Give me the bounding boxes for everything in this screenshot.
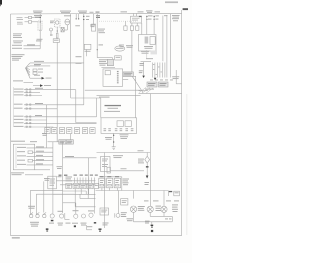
- side box component: [115, 56, 122, 60]
- wire bottom-left corner inner: [36, 194, 74, 214]
- label above right connector: [146, 57, 153, 60]
- pin column marks: [117, 71, 119, 83]
- label left edge right section: [145, 182, 150, 185]
- label headlamp rows left: [14, 89, 24, 127]
- node dot: [57, 31, 58, 32]
- wire bus y191: [63, 191, 87, 194]
- label between lamps: [156, 206, 162, 211]
- label fan rows connector pins bottom: [150, 79, 173, 82]
- label column header left box: [11, 141, 37, 142]
- wire main vertical B: [83, 14, 85, 105]
- label hot in run: [78, 11, 87, 14]
- gray connector tag 1: [147, 82, 157, 87]
- wire right pair 2: [166, 15, 168, 78]
- small box on wire bottom center: [107, 167, 110, 173]
- wire below switch box: [35, 169, 50, 171]
- fuse box row F2: [124, 21, 127, 30]
- wire short horizontal y176.8: [101, 177, 122, 191]
- label fuse F1 rating: [50, 21, 54, 24]
- connector bracket 2: [87, 225, 93, 230]
- label wire colors right connector: [140, 63, 145, 66]
- wire vertical C: [96, 14, 98, 58]
- wire above connector box: [101, 66, 115, 68]
- wire ground lead: [24, 82, 34, 84]
- marker lamp 2: [58, 211, 64, 226]
- label fuse (center): [64, 14, 71, 17]
- dashed component box: [38, 21, 42, 30]
- wire bottom link: [134, 221, 173, 223]
- label splice ids: [75, 16, 95, 27]
- node dots on ground wire: [113, 135, 114, 143]
- diode pack box 0: [66, 183, 72, 188]
- label above headlamp switch: [42, 133, 47, 136]
- wire grid vertical x75.8: [76, 90, 97, 123]
- connector branch box a: [33, 69, 37, 71]
- wire to relay: [93, 14, 95, 24]
- scan artifact dark dash: [183, 8, 188, 10]
- wire grid vertical x96.5: [96, 98, 98, 117]
- label left of link: [127, 218, 134, 221]
- hatch box component: [107, 59, 113, 65]
- wire feed row2: [24, 48, 41, 50]
- wire feed row1: [24, 45, 41, 47]
- wire drop x53.3 to lamps: [52, 194, 54, 214]
- ground G200: [112, 147, 116, 150]
- wire grid corner A: [71, 98, 101, 118]
- wire right of tags: [63, 156, 97, 158]
- switch pod 2: [107, 178, 113, 188]
- headlamp switch box: [13, 144, 34, 170]
- label fan branches: [34, 65, 43, 75]
- ground G201 dark: [99, 229, 102, 232]
- label small right of module: [58, 176, 73, 181]
- gray tag below module: [151, 51, 158, 55]
- label hot at all times (right): [121, 10, 128, 13]
- fuse box row F4: [136, 23, 139, 30]
- label ground lead: [13, 79, 23, 82]
- connector X-box: [61, 27, 64, 32]
- ground dark mark right: [94, 222, 96, 224]
- diode pack box 2: [80, 183, 86, 188]
- wire horizontal H5: [97, 58, 112, 60]
- wire down from dot A: [146, 17, 148, 35]
- label box right border: [174, 191, 180, 196]
- switch pod 1: [99, 178, 105, 188]
- wire right pair 3: [170, 14, 172, 78]
- dark connector tag: [139, 16, 142, 17]
- label fuse block (left): [34, 15, 42, 18]
- diode pack box 1: [73, 183, 79, 188]
- label above wire y170.8: [121, 167, 127, 170]
- pin stub 1: [123, 72, 129, 74]
- scan edge shadow line: [186, 94, 188, 235]
- label battery feed row1: [12, 44, 35, 45]
- wire drop x75.2: [74, 189, 76, 207]
- wire bus y206.8: [75, 206, 95, 208]
- dark marks at corner: [169, 191, 172, 192]
- wire horizontal into cluster hatch lower: [97, 94, 141, 96]
- harness arrow down: [154, 78, 157, 80]
- label right column lamps: [172, 204, 178, 212]
- wire box2 drop: [56, 134, 58, 142]
- switch row 4: [17, 159, 53, 162]
- wire with arrow left of comb: [142, 62, 145, 78]
- wire drop x133.5: [133, 191, 135, 199]
- label dashes left extension: [59, 175, 68, 176]
- switch pod 3: [114, 178, 120, 188]
- ignition switch oval: [65, 19, 70, 25]
- switch S1: [25, 16, 41, 18]
- ground G104 dark: [46, 228, 49, 231]
- harness hatch diagonals: [139, 88, 153, 94]
- wire bus y180.8: [56, 180, 95, 182]
- label wire codes right margin: [172, 15, 180, 21]
- connector label row box 4: [67, 128, 72, 134]
- lamp socket 3: [43, 213, 47, 218]
- label hot at all times (left): [33, 11, 43, 14]
- wire drop x94.6: [94, 189, 96, 214]
- wire box4 drop: [69, 134, 71, 140]
- switch box bottom center: [100, 208, 109, 215]
- wire long vertical right: [149, 94, 151, 207]
- wire row y127: [24, 126, 53, 127]
- label left switch column: [17, 17, 24, 24]
- wire bus y198.5: [80, 194, 96, 198]
- label left column mid: [13, 33, 23, 43]
- gray tag A under boxes: [59, 140, 66, 144]
- connector label row box 6: [82, 128, 87, 134]
- marker lamp 5: [88, 210, 94, 217]
- label above bottom-left corner area: [44, 178, 50, 181]
- coil symbol: [50, 28, 53, 36]
- wire drop x88.2: [87, 189, 89, 199]
- pin stub 3: [123, 78, 129, 80]
- wire into tail lamp right: [163, 191, 165, 207]
- node dots row1 right: [146, 16, 155, 20]
- diode pack box 4: [94, 183, 99, 188]
- wire oval to X-box: [64, 25, 67, 30]
- inner margin line: [13, 87, 15, 127]
- marker lamp 1: [49, 214, 54, 224]
- wire fuse to resistor: [56, 27, 58, 33]
- wire horizontal y170.8: [110, 170, 144, 172]
- wire row y123: [24, 123, 97, 124]
- wire horizontal mid H7: [97, 152, 151, 154]
- wire left drop long: [52, 142, 54, 195]
- wire stub to ground: [151, 222, 153, 225]
- wire drop x81.2: [80, 189, 82, 195]
- connector branch box b: [33, 72, 37, 74]
- label right of ground wire: [120, 134, 129, 139]
- wire drop x118.3: [117, 191, 119, 214]
- lamp diamond indicator: [145, 153, 150, 179]
- node junction dots: [40, 17, 41, 23]
- wire hatch base: [139, 90, 149, 92]
- starter module box M: [139, 35, 157, 52]
- wire drop x43.8: [43, 181, 45, 212]
- cluster bottom pin pairs: [104, 128, 134, 131]
- wire fuse to module: [141, 23, 143, 35]
- gray connector tag 2: [159, 82, 169, 87]
- fuse F1 dashed box: [55, 19, 61, 27]
- wire long horizontal right: [139, 93, 182, 95]
- relay box left tall: [101, 157, 111, 172]
- pin tick row: [74, 178, 94, 184]
- marker lamp 3: [72, 210, 79, 224]
- label rows right of pods: [123, 179, 130, 186]
- wire short right: [141, 60, 152, 62]
- label wire color: [36, 39, 43, 42]
- gauge oval: [115, 46, 125, 51]
- wire branch long: [30, 61, 84, 63]
- wire pin2 down to cluster: [135, 76, 137, 118]
- connector pin comb: [152, 63, 165, 78]
- wire long vertical from fuse: [56, 42, 58, 141]
- label below sockets: [30, 222, 39, 227]
- blower motor symbol: [130, 206, 136, 212]
- label battery feed row2: [12, 47, 22, 50]
- wire horizontal into cluster hatch upper: [85, 89, 141, 91]
- label rows right x137: [138, 150, 145, 163]
- dashed feed line: [99, 20, 137, 22]
- tail lamp left: [147, 206, 153, 212]
- wire row y90: [24, 88, 76, 90]
- connector drop ticks: [76, 14, 80, 19]
- node dot on wire C: [97, 49, 98, 50]
- label dashes above pods: [100, 176, 120, 177]
- connector label box: [53, 39, 59, 43]
- lamp socket 1: [30, 213, 34, 218]
- relay K1 box: [91, 24, 95, 31]
- marker lamp 4: [81, 214, 87, 226]
- node dots on B: [83, 16, 84, 20]
- instrument cluster box: [101, 118, 137, 134]
- wire row y109: [24, 108, 57, 109]
- wire lamps to common: [150, 212, 172, 221]
- label connector C100: [96, 12, 101, 18]
- ground G300 dark stack: [151, 225, 154, 232]
- connector label row box 2: [52, 128, 57, 134]
- label left of ground G300: [145, 221, 150, 224]
- diode pack box 3: [87, 183, 93, 188]
- label junction block: [138, 10, 144, 13]
- label note block left: [12, 54, 25, 60]
- scan artifact top dash: [165, 1, 178, 3]
- splice fan node: [26, 63, 31, 78]
- wire grid vertical x46.6: [46, 105, 48, 148]
- label stack left of hatch: [99, 59, 107, 65]
- wire vertical bus left: [39, 14, 41, 49]
- wire dimmer down: [86, 50, 88, 57]
- scan artifact corner mark: [0, 0, 2, 6]
- relay module box bottom-left: [48, 176, 57, 189]
- wire center drop long: [62, 142, 64, 213]
- socket symbol x118: [115, 213, 120, 217]
- wire bus y202.8: [63, 203, 76, 214]
- wire main vertical A: [70, 14, 72, 98]
- label below switch box: [11, 172, 24, 175]
- fuse box row F3: [130, 23, 133, 30]
- label near wire bottom left: [57, 166, 63, 169]
- label gauge: [126, 45, 133, 48]
- switch row 3: [17, 155, 53, 157]
- wire horizontal under boxes: [48, 141, 63, 143]
- wire bottom-left corner outer: [31, 190, 63, 214]
- switch row 1: [17, 146, 53, 148]
- wire corner right x168.3: [167, 191, 169, 197]
- switch row 5: [17, 163, 53, 165]
- gray tag B under boxes: [66, 140, 73, 144]
- tail lamp right: [161, 206, 167, 212]
- label left of module: [119, 45, 124, 48]
- wire right drop: [176, 70, 181, 84]
- connector label row box 5: [74, 128, 79, 134]
- wire right pair 1: [162, 16, 164, 62]
- wire down from dot B: [153, 17, 155, 35]
- wire row y95: [24, 95, 42, 96]
- pin stub 2 to wire: [123, 75, 136, 77]
- page footer text: [12, 237, 20, 238]
- label beside wire B: [76, 56, 82, 64]
- label right fuse ids: [148, 15, 168, 19]
- pin id marks: [153, 64, 162, 75]
- wire pod drops: [102, 188, 118, 191]
- resistor R1: [56, 33, 58, 38]
- label above center box: [99, 97, 121, 112]
- dimmer cluster box: [84, 44, 91, 51]
- label hot in start: [146, 10, 153, 12]
- wire tail below box M: [146, 50, 148, 58]
- label marks on link: [165, 218, 172, 219]
- label near wire C: [99, 44, 104, 45]
- wire bus y194.3: [53, 193, 96, 195]
- connector bracket 1: [65, 213, 71, 224]
- wire row y105: [24, 103, 84, 105]
- multifunction connector box: [103, 69, 123, 86]
- label dashes above pin row: [74, 175, 98, 176]
- wire bus y184.8: [60, 184, 96, 186]
- lamp socket 2: [36, 213, 40, 218]
- label right drop: [172, 76, 179, 79]
- wire row y120: [24, 119, 47, 120]
- ground dark small: [74, 225, 76, 227]
- label below module: [141, 51, 149, 54]
- arrow to right harness: [33, 84, 51, 87]
- switch row 2: [17, 151, 53, 154]
- connector label row box 3: [59, 128, 64, 134]
- junction block box: [131, 13, 142, 23]
- label right of socket: [121, 212, 127, 217]
- label right of relay: [113, 155, 123, 158]
- gray pin label box: [123, 72, 133, 77]
- label right of motor: [138, 206, 145, 211]
- connector label row box 1: [45, 128, 50, 134]
- border frame: [11, 10, 182, 236]
- wire cluster to ground: [113, 133, 115, 146]
- label small above border: [90, 11, 94, 14]
- resistor box on wire: [121, 199, 128, 205]
- label beside arrow wire: [139, 70, 143, 73]
- label text under C100: [98, 29, 105, 34]
- wire drop center x104: [104, 153, 106, 229]
- label above sockets: [28, 206, 35, 209]
- switch S2: [25, 21, 39, 24]
- label left of ground wire: [105, 137, 112, 140]
- wire motor down: [133, 212, 135, 221]
- label right of ground: [103, 223, 109, 226]
- label hot in run right: [155, 10, 161, 13]
- wire drop x88: [88, 158, 90, 195]
- wire row y92: [24, 92, 40, 93]
- connector label row box 7: [90, 128, 95, 134]
- wire branch arrow: [30, 77, 52, 80]
- wire branch 2: [30, 64, 50, 66]
- label row above lamps right: [144, 200, 179, 201]
- label below tags: [145, 88, 154, 91]
- wire stub below label: [25, 174, 43, 176]
- wire fuse to splice: [131, 30, 143, 92]
- wire bus y190.5 center: [96, 190, 169, 192]
- label hot at all times (center): [60, 11, 71, 14]
- wire row y117: [24, 115, 97, 117]
